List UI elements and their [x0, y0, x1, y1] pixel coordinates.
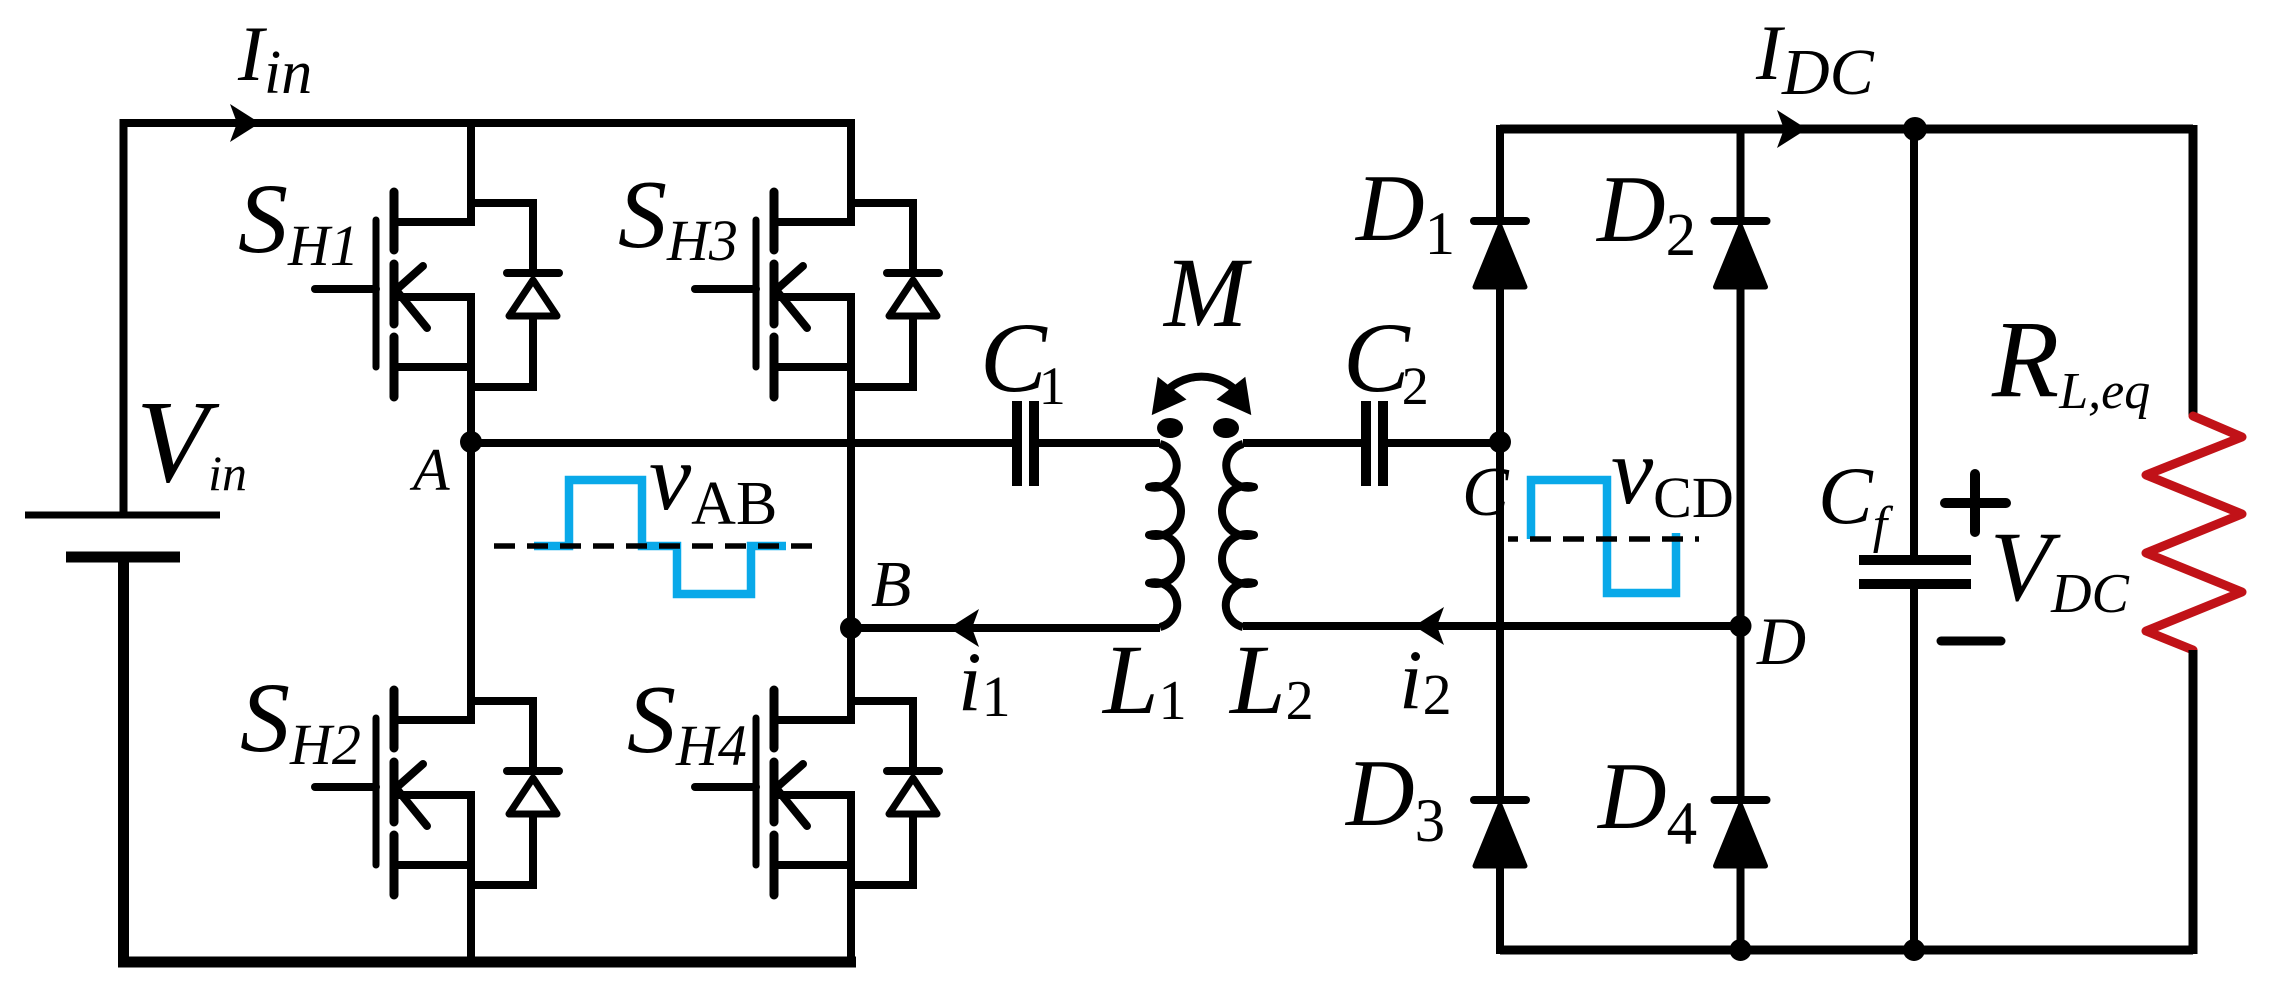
- wire: node D to D4: [1737, 626, 1745, 800]
- wire: leg SH1 source to node A: [467, 293, 475, 446]
- transistor SH2: [315, 690, 559, 895]
- wire: leg of SH3 (drain): [847, 119, 855, 226]
- junction dot bottom rail / D4: [1730, 939, 1752, 961]
- diode D3: [1474, 800, 1526, 866]
- wire: D1 to node C: [1496, 287, 1504, 446]
- node C: [1489, 431, 1511, 453]
- node A: [460, 431, 482, 453]
- wire: load right vertical top: [2189, 125, 2198, 416]
- wire: D4 to bottom rail: [1737, 866, 1745, 954]
- wire: load right vertical bottom: [2189, 650, 2198, 954]
- wire: node C to D3: [1496, 442, 1504, 800]
- svg-text:Iin: Iin: [237, 10, 312, 107]
- transistor SH3: [695, 192, 939, 397]
- wire: leg SH4 source to bottom rail: [847, 791, 855, 964]
- wire: input top rail: [120, 119, 852, 127]
- wire: input bottom rail: [118, 957, 856, 968]
- wire: L2 to C2: [1243, 439, 1362, 447]
- svg-text:D: D: [1756, 603, 1806, 679]
- diode D2: [1715, 221, 1767, 287]
- svg-text:D1: D1: [1354, 155, 1455, 268]
- waveform vCD: [1531, 480, 1676, 593]
- inductor L2 winding: [1222, 444, 1254, 627]
- wire: rectifier bottom rail: [1500, 946, 2193, 955]
- svg-text:Cf: Cf: [1818, 450, 1894, 554]
- arrow Iin: [230, 104, 260, 142]
- svg-text:SH2: SH2: [240, 662, 361, 777]
- wire: node B to L1: [851, 624, 1160, 632]
- node B: [840, 617, 862, 639]
- battery Vin bottom plate: [66, 552, 180, 563]
- wire: input loop left vertical (top): [120, 119, 128, 515]
- wire: Cf leg top: [1910, 129, 1918, 560]
- svg-text:SH3: SH3: [618, 161, 738, 273]
- transistor SH4: [695, 690, 939, 895]
- svg-text:C2: C2: [1343, 302, 1429, 416]
- wire: L2 bottom to node D: [1243, 622, 1744, 630]
- svg-text:SH4: SH4: [627, 666, 747, 778]
- svg-text:D2: D2: [1595, 156, 1696, 269]
- svg-text:D3: D3: [1344, 740, 1445, 855]
- capacitor Cf: [1859, 560, 1971, 584]
- svg-text:L1: L1: [1101, 624, 1187, 735]
- minus sign VDC: [1941, 637, 2001, 646]
- svg-text:Vin: Vin: [136, 376, 247, 507]
- wire: Cf leg bottom: [1910, 584, 1918, 950]
- svg-text:B: B: [871, 548, 911, 621]
- arrow IDC: [1777, 110, 1807, 148]
- wire: leg D2 top: [1737, 125, 1745, 221]
- svg-text:i2: i2: [1399, 633, 1452, 727]
- diode D1: [1474, 221, 1526, 287]
- capacitor C2: [1366, 401, 1383, 486]
- plus sign VDC: [1945, 474, 2006, 532]
- waveform vAB: [534, 480, 786, 594]
- wire: D2 to node D: [1737, 287, 1745, 630]
- junction dot bottom rail / Cf: [1903, 939, 1925, 961]
- wire: leg SH4 from node B: [847, 628, 855, 724]
- transistor SH1: [315, 192, 559, 397]
- wire: leg D1 top: [1496, 125, 1504, 221]
- wire: C2 to node C: [1388, 439, 1504, 447]
- svg-text:D4: D4: [1596, 743, 1697, 858]
- axis dashed line vAB: [494, 543, 816, 549]
- dot of L1 winding: [1157, 418, 1183, 438]
- node D: [1730, 615, 1752, 637]
- dot of L2 winding: [1213, 418, 1239, 438]
- resistor RL,eq: [2146, 416, 2242, 650]
- axis dashed line vCD: [1508, 536, 1699, 542]
- wire: leg SH3 source to node B: [847, 293, 855, 632]
- svg-text:L2: L2: [1228, 624, 1314, 735]
- inductor L1 winding: [1149, 444, 1181, 627]
- svg-text:RL,eq: RL,eq: [1991, 298, 2150, 420]
- diode D4: [1715, 800, 1767, 866]
- wire: node A to C1: [471, 439, 1013, 447]
- capacitor C1: [1017, 401, 1034, 486]
- svg-text:VDC: VDC: [1990, 511, 2130, 625]
- svg-text:i1: i1: [958, 635, 1011, 729]
- battery Vin top plate: [25, 512, 220, 519]
- wire: leg SH2 source to bottom rail: [467, 791, 475, 964]
- wire: leg of SH1 (drain): [467, 119, 475, 226]
- arrow i2: [1414, 607, 1444, 645]
- wire: input loop left vertical (bottom): [118, 562, 129, 962]
- svg-text:C1: C1: [980, 302, 1066, 416]
- junction dot top rail / Cf: [1903, 117, 1927, 141]
- wire: C1 to L1: [1039, 439, 1160, 447]
- mutual coupling arrow M: [1162, 377, 1241, 396]
- svg-text:SH1: SH1: [238, 163, 359, 278]
- wire: rectifier top rail: [1500, 125, 2193, 134]
- wire: leg SH2 from node A: [467, 442, 475, 724]
- svg-text:A: A: [409, 437, 450, 503]
- wire: D3 to bottom rail: [1496, 866, 1504, 954]
- svg-text:vCD: vCD: [1611, 418, 1734, 530]
- arrow i1: [949, 609, 979, 647]
- svg-text:M: M: [1162, 237, 1252, 348]
- svg-text:IDC: IDC: [1755, 9, 1875, 109]
